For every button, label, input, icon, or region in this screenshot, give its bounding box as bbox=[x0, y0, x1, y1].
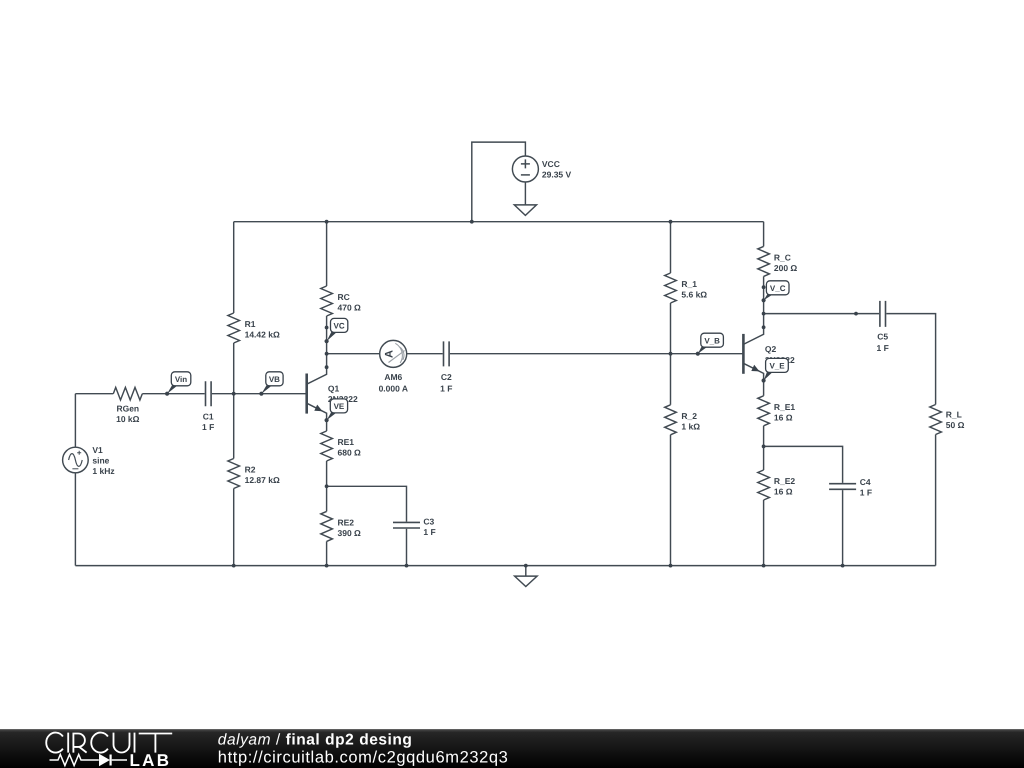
svg-text:Q2: Q2 bbox=[765, 344, 777, 354]
svg-text:1 kΩ: 1 kΩ bbox=[681, 421, 700, 431]
svg-text:1 F: 1 F bbox=[202, 422, 214, 432]
svg-text:C4: C4 bbox=[860, 477, 871, 487]
node C4 bottom bbox=[841, 564, 845, 568]
svg-text:C1: C1 bbox=[203, 411, 214, 421]
svg-text:VC: VC bbox=[334, 322, 345, 331]
svg-text:10 kΩ: 10 kΩ bbox=[116, 414, 140, 424]
wire Q1 emitter to RE1 bbox=[326, 420, 328, 431]
wire R_L to bottom rail bbox=[935, 435, 937, 566]
svg-text:680 Ω: 680 Ω bbox=[338, 448, 362, 458]
svg-text:R_1: R_1 bbox=[681, 279, 697, 289]
voltage source V1 bbox=[63, 447, 89, 473]
wire bottom ground stub bbox=[525, 566, 527, 577]
svg-text:1 F: 1 F bbox=[860, 488, 872, 498]
svg-text:V_B: V_B bbox=[704, 336, 720, 345]
capacitor C1 bbox=[206, 381, 212, 406]
svg-text:390 Ω: 390 Ω bbox=[338, 528, 362, 538]
wire C3 to bottom rail bbox=[406, 529, 408, 566]
svg-text:5.6 kΩ: 5.6 kΩ bbox=[681, 290, 707, 300]
node VC attach bbox=[325, 339, 329, 343]
footer bar bbox=[0, 729, 1024, 768]
svg-text:16 Ω: 16 Ω bbox=[774, 412, 793, 422]
svg-text:Vin: Vin bbox=[175, 375, 187, 384]
node Q1 emitter terminal bbox=[325, 418, 329, 422]
resistor R_1 bbox=[665, 273, 677, 303]
wire collector node to C5 bbox=[764, 313, 880, 315]
resistor R_L bbox=[930, 405, 942, 435]
node R_C bottom terminal bbox=[762, 285, 766, 289]
svg-text:C2: C2 bbox=[441, 372, 452, 382]
node RC top rail junction bbox=[325, 220, 329, 224]
node RE1-C3 junction bbox=[325, 484, 329, 488]
svg-text:14.42 kΩ: 14.42 kΩ bbox=[245, 330, 280, 340]
svg-text:V_E: V_E bbox=[769, 362, 785, 371]
flag V_B bbox=[698, 333, 724, 354]
node VCC rail junction bbox=[470, 220, 474, 224]
wire RC to Q1 collector bbox=[326, 316, 328, 367]
node R_1 top rail junction bbox=[669, 220, 673, 224]
wire ammeter to C2 bbox=[407, 353, 443, 355]
node R_E1-C4 junction bbox=[762, 445, 766, 449]
wire C4 branch bbox=[764, 446, 843, 483]
wire bottom rail bbox=[75, 565, 935, 567]
svg-text:Q1: Q1 bbox=[328, 383, 340, 393]
transistor Q2 bbox=[743, 327, 763, 380]
wire C4 to bottom rail bbox=[842, 490, 844, 565]
svg-text:C3: C3 bbox=[423, 516, 434, 526]
wire R_2 to bottom rail bbox=[670, 435, 672, 566]
capacitor C5 bbox=[880, 301, 886, 327]
svg-text:RC: RC bbox=[338, 292, 350, 302]
resistor RE2 bbox=[321, 511, 333, 541]
svg-text:470 Ω: 470 Ω bbox=[338, 303, 362, 313]
resistor R_2 bbox=[665, 405, 677, 435]
wire VCC branch bbox=[472, 142, 526, 222]
resistor R_E2 bbox=[758, 470, 770, 500]
wire collector node to ammeter bbox=[327, 353, 380, 355]
node ground bottom bbox=[524, 564, 528, 568]
ground (bottom) bbox=[515, 576, 538, 586]
wire RE1 to RE2 bbox=[326, 461, 328, 511]
wire C2 to Q2 base bbox=[450, 353, 744, 355]
svg-text:http://circuitlab.com/c2gqdu6m: http://circuitlab.com/c2gqdu6m232q3 bbox=[218, 749, 509, 767]
wire R_E2 to bottom rail bbox=[763, 500, 765, 566]
svg-text:50 Ω: 50 Ω bbox=[946, 420, 965, 430]
svg-text:200 Ω: 200 Ω bbox=[774, 263, 798, 273]
resistor R_E1 bbox=[758, 396, 770, 426]
node RC bottom terminal bbox=[325, 326, 329, 330]
wire V1 top bbox=[74, 394, 76, 448]
wire R_C column top bbox=[763, 222, 765, 247]
svg-text:VB: VB bbox=[269, 375, 280, 384]
wire RC column top bbox=[326, 222, 328, 286]
svg-text:C5: C5 bbox=[877, 332, 888, 342]
capacitor C4 bbox=[829, 484, 856, 490]
voltage source VCC bbox=[512, 156, 538, 182]
node RE2 bottom bbox=[325, 564, 329, 568]
capacitor C3 bbox=[393, 522, 420, 528]
svg-text:RE2: RE2 bbox=[338, 517, 355, 527]
flag V_E bbox=[764, 358, 789, 380]
node C5 wire junction bbox=[762, 312, 766, 316]
node R_E2 bottom bbox=[762, 564, 766, 568]
svg-text:LAB: LAB bbox=[130, 751, 172, 768]
node collector wire junction bbox=[325, 352, 329, 356]
wire R_1 column top bbox=[670, 222, 672, 273]
wire VCC to ground bbox=[524, 182, 526, 205]
svg-text:AM6: AM6 bbox=[384, 372, 402, 382]
svg-text:R2: R2 bbox=[245, 465, 256, 475]
voltage flags bbox=[167, 281, 789, 420]
logo resistor-diode glyph bbox=[50, 754, 128, 766]
node R2 bottom bbox=[232, 564, 236, 568]
svg-text:0.000 A: 0.000 A bbox=[379, 384, 408, 394]
wire left column upper bbox=[233, 222, 235, 313]
wire R_1 to R_2 bbox=[670, 303, 672, 405]
wire RE2 to bottom rail bbox=[326, 541, 328, 565]
node C3 bottom bbox=[405, 564, 409, 568]
wire top rail bbox=[234, 221, 764, 223]
wire C3 branch top bbox=[327, 486, 407, 521]
svg-text:1 F: 1 F bbox=[440, 384, 452, 394]
flag VE bbox=[327, 399, 348, 420]
svg-text:1 F: 1 F bbox=[423, 527, 435, 537]
ammeter AM6 bbox=[380, 340, 407, 367]
svg-text:16 Ω: 16 Ω bbox=[774, 487, 793, 497]
svg-text:RGen: RGen bbox=[116, 404, 139, 414]
svg-text:A: A bbox=[384, 350, 396, 358]
wire V1 to RGen bbox=[75, 393, 113, 395]
wire R_C to Q2 collector bbox=[763, 276, 765, 327]
wire R_E1 to R_E2 bbox=[763, 426, 765, 470]
svg-text:VE: VE bbox=[334, 402, 345, 411]
transistor Q1 bbox=[307, 367, 327, 420]
node Q2 collector terminal bbox=[762, 325, 766, 329]
capacitor C2 bbox=[444, 341, 450, 366]
node R1 R2 base junction bbox=[232, 392, 236, 396]
svg-text:R1: R1 bbox=[245, 319, 256, 329]
wire V1 bottom bbox=[74, 473, 76, 566]
svg-text:VCC: VCC bbox=[542, 159, 560, 169]
node C5 left terminal bbox=[854, 312, 858, 316]
resistor RE1 bbox=[321, 431, 333, 461]
wire Q2 emitter to R_E1 bbox=[763, 381, 765, 396]
wire left column mid bbox=[233, 343, 235, 459]
svg-text:sine: sine bbox=[92, 456, 109, 466]
wire C1 to Q1 base bbox=[212, 393, 307, 395]
svg-text:1 F: 1 F bbox=[877, 343, 889, 353]
ground (VCC) bbox=[514, 205, 536, 216]
node Vin attach bbox=[165, 392, 169, 396]
flag VC bbox=[327, 318, 348, 341]
resistor RC bbox=[321, 286, 333, 316]
resistor RGen bbox=[113, 387, 142, 400]
flag Vin bbox=[167, 372, 191, 394]
svg-text:dalyam / final dp2 desing: dalyam / final dp2 desing bbox=[218, 731, 413, 748]
svg-text:12.87 kΩ: 12.87 kΩ bbox=[245, 475, 280, 485]
svg-text:R_L: R_L bbox=[946, 410, 962, 420]
svg-text:R_E2: R_E2 bbox=[774, 476, 796, 486]
logo CIRCUIT bbox=[46, 733, 172, 753]
svg-text:V_C: V_C bbox=[770, 284, 786, 293]
node VB attach bbox=[259, 392, 263, 396]
resistor R_C bbox=[758, 246, 770, 276]
node R_2 bottom bbox=[669, 564, 673, 568]
resistor R1 bbox=[228, 313, 240, 343]
svg-text:RE1: RE1 bbox=[338, 437, 355, 447]
flag VB bbox=[261, 372, 283, 394]
node Q1 collector terminal bbox=[325, 365, 329, 369]
svg-text:V1: V1 bbox=[92, 445, 103, 455]
node V_B attach bbox=[696, 352, 700, 356]
svg-text:1 kHz: 1 kHz bbox=[92, 466, 114, 476]
wire left column lower bbox=[233, 489, 235, 566]
node R_1 R_2 mid junction bbox=[669, 352, 673, 356]
svg-text:R_C: R_C bbox=[774, 252, 791, 262]
svg-text:R_E1: R_E1 bbox=[774, 402, 796, 412]
wire C5 to R_L bbox=[886, 314, 935, 405]
node Q2 emitter terminal bbox=[762, 378, 766, 382]
wire RGen to C1 bbox=[142, 393, 204, 395]
flag V_C bbox=[764, 281, 789, 301]
node V_C attach bbox=[762, 298, 766, 302]
resistor R2 bbox=[228, 459, 240, 489]
svg-text:R_2: R_2 bbox=[681, 411, 697, 421]
svg-text:29.35 V: 29.35 V bbox=[542, 169, 572, 179]
